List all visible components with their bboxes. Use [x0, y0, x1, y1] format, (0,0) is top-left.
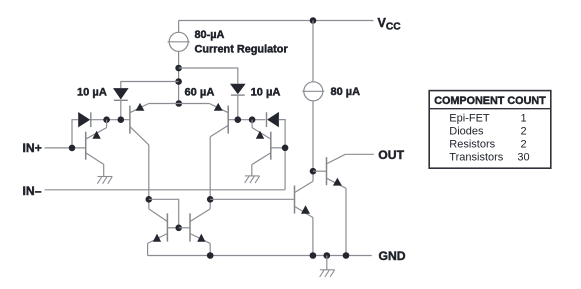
- node: Q6 emitter / ground rail: [207, 252, 214, 259]
- svg-text:Diodes: Diodes: [449, 126, 484, 138]
- svg-text:IN+: IN+: [23, 141, 42, 155]
- svg-text:Resistors: Resistors: [449, 139, 495, 151]
- arrow: Q3 emitter (PNP, into base): [214, 103, 223, 111]
- wire: rail to current regulator: [178, 21, 180, 33]
- node: right base rail / Q4 emitter junction: [249, 116, 256, 123]
- node: ground rail / substrate stub: [324, 252, 331, 259]
- wire: 80-uA source from rail: [312, 21, 314, 83]
- transistor Q6 (current mirror output NPN): [179, 209, 211, 244]
- wire: gain node to Q8 base: [313, 170, 327, 172]
- wire: IN+ lead to Q1 base: [45, 147, 86, 149]
- chassis ground (Q1 collector substrate): [98, 176, 113, 178]
- wire: Q1 collector to substrate: [103, 164, 105, 176]
- wire: right base rail (Q3 base to D4 cathode): [228, 119, 265, 121]
- svg-text:2: 2: [520, 139, 526, 151]
- arrow: Q8 emitter (NPN, out of base): [333, 178, 342, 186]
- svg-text:Epi-FET: Epi-FET: [449, 112, 490, 124]
- node: bias node A (feeds D1): [175, 65, 182, 72]
- wire: Q7 emitter to ground rail: [312, 218, 314, 256]
- wire: Q4 base to IN- riser: [271, 147, 285, 149]
- wire: mirror output to Q7 base: [210, 198, 294, 200]
- node: right base rail / D1 junction: [235, 116, 242, 123]
- arrow: Q5 emitter (NPN, out of base): [153, 234, 161, 242]
- wire: ground rail substrate stub: [326, 256, 328, 270]
- node: mirror input node (Q5 collector-base tie): [146, 196, 153, 203]
- svg-text:2: 2: [520, 126, 526, 138]
- arrow: Q6 emitter (NPN, out of base): [197, 234, 205, 242]
- node: Q7 emitter / ground rail: [310, 252, 317, 259]
- node: left base rail / D2 junction: [118, 116, 125, 123]
- wire: left base rail (D3 cathode to Q2 base): [91, 119, 130, 121]
- svg-text:10 µA: 10 µA: [251, 86, 281, 98]
- wire: D1 cathode down to right base rail: [237, 96, 239, 120]
- svg-text:1: 1: [520, 112, 526, 124]
- wire: Q8 collector to OUT: [345, 153, 374, 155]
- svg-text:GND: GND: [379, 249, 406, 263]
- node: mirror output node: [207, 196, 214, 203]
- svg-text:10 µA: 10 µA: [77, 86, 107, 98]
- arrow: Q2 emitter (PNP, into base): [136, 103, 145, 111]
- table: COMPONENT COUNT box: [429, 91, 551, 169]
- diode D1 (right 10-uA bias diode): [230, 84, 246, 95]
- arrow: Q7 emitter (NPN, out of base): [301, 205, 310, 214]
- wire: ground rail: [148, 255, 372, 257]
- svg-text:30: 30: [517, 152, 529, 164]
- table: header separator: [429, 108, 551, 110]
- current regulator I1 (80-uA): [169, 32, 188, 51]
- svg-text:60 µA: 60 µA: [185, 86, 215, 98]
- wire: D2 cathode down to left base rail: [120, 100, 122, 120]
- current source I2 (80 uA): [304, 82, 323, 101]
- node: diff-pair tail node: [176, 100, 183, 107]
- wire: Q2 collector down to mirror input: [148, 145, 150, 209]
- transistor Q4 (right input PNP): [252, 120, 271, 165]
- node: gain node (Q7 collector / Q8 base): [310, 168, 317, 175]
- wire: node A to diode D1: [179, 68, 238, 84]
- svg-text:COMPONENT COUNT: COMPONENT COUNT: [434, 95, 546, 107]
- wire: regulator output down to tail node: [178, 51, 180, 103]
- wire: D4 anode to IN- riser: [279, 120, 285, 190]
- wire: mirror input to base rail: [149, 199, 179, 228]
- transistor Q3 (right mirror drive PNP): [209, 104, 228, 137]
- svg-text:80-µA: 80-µA: [195, 29, 225, 41]
- svg-text:Current Regulator: Current Regulator: [195, 43, 289, 55]
- wire: IN- lead to riser: [45, 189, 286, 191]
- wire: VCC top rail: [179, 20, 374, 22]
- diode D3 (left input clamp diode): [78, 112, 90, 127]
- wire: Q3 collector down to mirror output: [209, 137, 211, 209]
- transistor Q8 (output follower NPN): [327, 154, 347, 188]
- wire: diff-pair tail crossbar: [149, 103, 210, 105]
- svg-text:80 µA: 80 µA: [331, 86, 361, 98]
- transistor Q1 (left input PNP): [86, 120, 107, 165]
- node: IN+ / D3 junction: [69, 145, 76, 152]
- wire: D3 anode to IN+ node: [72, 120, 78, 148]
- diode D2 (left 10-uA bias diode): [113, 88, 129, 99]
- node: Q4 base / IN- riser junction: [282, 145, 289, 152]
- arrow: Q1 emitter (PNP, into base): [92, 131, 100, 139]
- node: mirror base junction: [175, 225, 182, 232]
- wire: Q4 collector to substrate: [251, 165, 253, 176]
- wire: Q8 emitter to ground rail: [345, 188, 347, 255]
- node: bias node B (feeds D2): [175, 78, 182, 85]
- svg-text:Transistors: Transistors: [449, 152, 503, 164]
- wire: 80-uA source to gain node: [312, 101, 314, 182]
- diode D4 (right input clamp diode): [267, 112, 279, 127]
- arrow: Q4 emitter (PNP, into base): [256, 131, 264, 139]
- transistor Q2 (left mirror drive PNP): [130, 104, 149, 145]
- svg-text:OUT: OUT: [378, 148, 404, 162]
- chassis ground (Q4 collector substrate): [245, 175, 260, 177]
- transistor Q7 (gain stage NPN): [295, 181, 314, 217]
- node: left base rail / Q1 emitter junction: [103, 116, 110, 123]
- svg-text:IN–: IN–: [23, 184, 42, 198]
- chassis ground (output substrate): [320, 269, 335, 271]
- wire: Q6 emitter to ground rail: [209, 243, 211, 255]
- wire: node B to diode D2: [121, 82, 179, 89]
- node: Q8 emitter / ground rail: [343, 252, 350, 259]
- node: top rail / 80-uA source junction: [310, 17, 317, 24]
- wire: Q5 emitter to ground rail: [147, 243, 149, 255]
- transistor Q5 (current mirror, diode-connected NPN): [148, 209, 179, 244]
